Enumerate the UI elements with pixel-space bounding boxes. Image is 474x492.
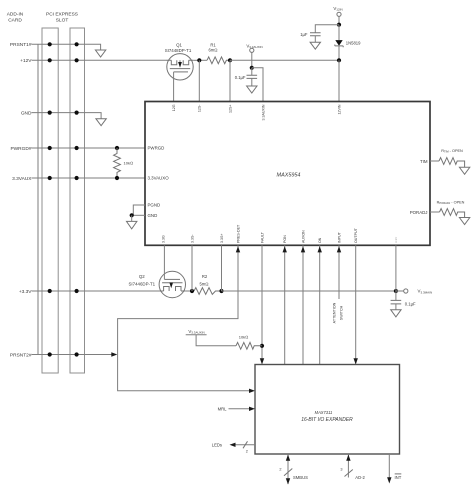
- ground: [459, 167, 469, 174]
- resistor 10k FAULT pullup: [236, 342, 262, 349]
- svg-text:V12IN: V12IN: [333, 6, 342, 12]
- wire PWRGD# row: [32, 147, 146, 149]
- svg-text:PWRGD#: PWRGD#: [10, 146, 31, 152]
- label PCI EXPRESS SLOT: [46, 12, 78, 24]
- wire to 3.3AUXIN pin: [252, 68, 263, 102]
- capacitor 0.1uF V3.3MAIN: [395, 291, 397, 300]
- capacitor 1uF: [315, 25, 339, 33]
- svg-text:SMBUS: SMBUS: [293, 475, 308, 480]
- svg-text:0.1µF: 0.1µF: [405, 301, 416, 306]
- ground: [96, 119, 106, 126]
- wire 12S- stub: [198, 60, 200, 101]
- svg-text:3.3S-: 3.3S-: [190, 234, 194, 243]
- wire 3.3VAUX row: [32, 177, 146, 179]
- node INT: [388, 454, 390, 478]
- wire 12V rail to diode: [230, 59, 339, 61]
- wire +3.3V row: [32, 290, 160, 292]
- svg-text:V3.3AUXIN: V3.3AUXIN: [188, 329, 204, 335]
- svg-text:1µF: 1µF: [300, 32, 308, 37]
- svg-text:SWITCH: SWITCH: [339, 305, 343, 320]
- svg-text:16-BIT I/O EXPANDER: 16-BIT I/O EXPANDER: [301, 417, 353, 423]
- svg-text:3.3VAUXO: 3.3VAUXO: [148, 176, 170, 181]
- node SMBUS: [287, 454, 289, 484]
- svg-text:ATTENTION: ATTENTION: [332, 302, 336, 323]
- svg-text:PCI EXPRESS: PCI EXPRESS: [46, 12, 78, 18]
- svg-text:12VIN: 12VIN: [337, 104, 341, 114]
- transistor Q1 SI7448DP-T1: [165, 42, 194, 101]
- svg-text:PON: PON: [283, 235, 287, 243]
- svg-text:AUXON: AUXON: [301, 230, 305, 243]
- svg-text:12S+: 12S+: [228, 105, 232, 114]
- diode 1N5819: [338, 25, 340, 40]
- svg-text:0.1µF: 0.1µF: [235, 75, 246, 80]
- svg-text:10kΩ: 10kΩ: [124, 161, 134, 166]
- svg-text:MAX5954: MAX5954: [277, 173, 301, 179]
- svg-text:3.3G: 3.3G: [162, 235, 166, 243]
- svg-text:CARD: CARD: [8, 18, 22, 24]
- svg-text:5mΩ: 5mΩ: [199, 282, 208, 287]
- wire +12V row: [32, 59, 168, 61]
- wire PRSNT2# row: [32, 354, 112, 356]
- capacitor 0.1uF: [251, 68, 253, 76]
- svg-text:AD-2: AD-2: [355, 475, 365, 480]
- svg-text:3.3VAUX: 3.3VAUX: [12, 176, 32, 182]
- connector strip pci express slot: [70, 28, 85, 373]
- wire 12VIN stub: [338, 60, 340, 101]
- op-amp U1 MAX5954: [145, 102, 430, 246]
- svg-text:1N5819: 1N5819: [346, 41, 361, 46]
- svg-text:LEDs: LEDs: [212, 442, 222, 447]
- ground: [310, 42, 320, 49]
- svg-text:Q1: Q1: [176, 42, 182, 47]
- label ADD-IN CARD: [7, 12, 24, 24]
- svg-text:V3.3MAIN: V3.3MAIN: [418, 289, 433, 295]
- ground: [391, 310, 401, 317]
- svg-text:INPUT: INPUT: [337, 231, 341, 243]
- svg-text:Q2: Q2: [139, 274, 145, 279]
- wire PON: [284, 245, 286, 364]
- svg-text:3.3V: 3.3V: [394, 237, 398, 243]
- resistor R2 5mOhm: [185, 290, 194, 292]
- svg-text:+12V: +12V: [20, 58, 32, 64]
- resistor RTIM open: [430, 160, 439, 162]
- wire GND: [132, 214, 145, 216]
- svg-text:12G: 12G: [172, 104, 176, 111]
- resistor RPORADJ open: [430, 211, 440, 213]
- ground: [459, 218, 469, 225]
- svg-text:3: 3: [340, 468, 342, 472]
- svg-text:MRL: MRL: [218, 406, 228, 411]
- wire 3.3VIN stub: [395, 245, 397, 291]
- wire 3.3V rail: [222, 290, 396, 292]
- svg-text:+3.3V: +3.3V: [19, 289, 32, 295]
- svg-text:ON: ON: [318, 237, 322, 243]
- wire ON: [319, 245, 321, 364]
- svg-text:PRSNT1#: PRSNT1#: [10, 42, 32, 48]
- svg-text:GND: GND: [21, 110, 32, 116]
- node AD-2: [347, 454, 349, 478]
- wire OUTPUT: [355, 245, 357, 363]
- svg-text:6mΩ: 6mΩ: [208, 48, 217, 53]
- node 3.3S+ junction: [219, 289, 223, 293]
- wire PRSNT1# to PRSNT2# bridge: [37, 44, 39, 354]
- node 12S- junction: [197, 58, 201, 62]
- node 12S+ junction: [228, 58, 232, 62]
- svg-text:ADD-IN: ADD-IN: [7, 12, 24, 18]
- resistor 10k pullup PWRGD: [114, 148, 121, 178]
- wire PRSNT1# row: [32, 44, 101, 50]
- wire FAULT: [261, 245, 263, 363]
- svg-text:2: 2: [246, 449, 248, 453]
- svg-text:PRES-DET: PRES-DET: [236, 224, 240, 243]
- svg-text:FAULT: FAULT: [260, 231, 264, 243]
- svg-text:MAX7311: MAX7311: [315, 410, 333, 415]
- svg-text:PRSNT2#: PRSNT2#: [10, 352, 32, 358]
- wire V3.3AUXIN stub: [251, 52, 253, 67]
- svg-text:V3.3AUXIN: V3.3AUXIN: [246, 43, 262, 49]
- transistor Q2 SI7446DP-T1: [128, 245, 185, 297]
- svg-text:12S-: 12S-: [198, 104, 202, 112]
- wire PRES-DET loop: [118, 245, 251, 390]
- svg-text:2: 2: [279, 468, 281, 472]
- svg-text:SI7448DP-T1: SI7448DP-T1: [165, 48, 192, 53]
- svg-text:TIM: TIM: [420, 159, 428, 164]
- svg-text:PGND: PGND: [148, 203, 161, 208]
- svg-text:3.3AUXIN: 3.3AUXIN: [261, 104, 265, 120]
- wire 12S+ stub: [229, 60, 231, 101]
- svg-text:10kΩ: 10kΩ: [239, 335, 249, 340]
- svg-text:SLOT: SLOT: [56, 18, 69, 24]
- ground: [247, 86, 257, 93]
- svg-text:OUTPUT: OUTPUT: [354, 227, 358, 243]
- ground: [95, 50, 105, 57]
- ground: [127, 221, 137, 229]
- svg-text:SI7446DP-T1: SI7446DP-T1: [128, 282, 155, 287]
- svg-text:PORADJ: PORADJ: [410, 210, 428, 215]
- wire PGND: [133, 205, 145, 215]
- resistor R1 6mOhm: [193, 59, 207, 61]
- node 3.3S- junction: [190, 289, 194, 293]
- node V3.3MAIN junction: [394, 289, 398, 293]
- wire INPUT attention switch: [338, 245, 340, 299]
- svg-text:3.3S+: 3.3S+: [220, 234, 224, 244]
- svg-text:PWRGD: PWRGD: [148, 146, 165, 151]
- svg-text:GND: GND: [148, 213, 158, 218]
- wire GND row: [32, 113, 102, 119]
- svg-text:INT: INT: [395, 475, 402, 480]
- wire AUXON: [302, 245, 304, 364]
- svg-text:R2: R2: [202, 274, 208, 279]
- connector strip add-in card: [42, 28, 58, 373]
- op-amp U2 MAX7311: [255, 365, 400, 455]
